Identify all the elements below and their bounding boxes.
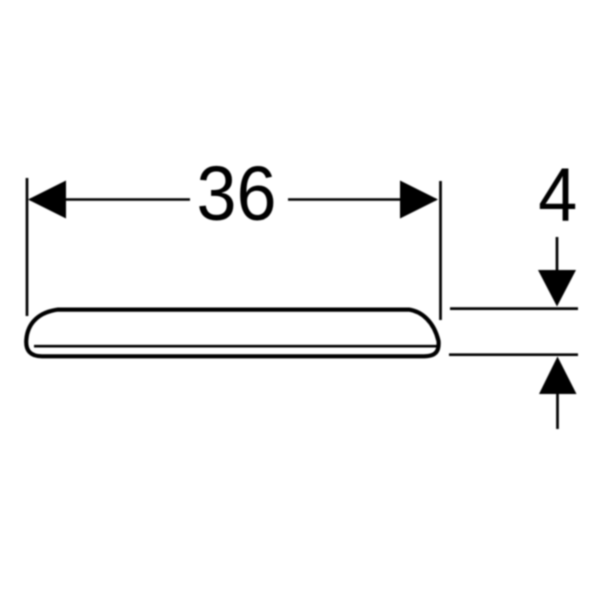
svg-text:36: 36 (197, 151, 277, 237)
svg-text:4: 4 (538, 153, 577, 238)
dimension 36: right extension line (439, 181, 442, 320)
dimension 4: upper extension line (450, 307, 578, 310)
dimension 36: right line segment (288, 198, 436, 200)
dimension 36: right arrowhead (400, 181, 438, 219)
dimension 36: left extension line (26, 178, 29, 316)
dimension 4: lower extension line (449, 353, 578, 356)
dimension 4: down arrowhead (538, 270, 576, 307)
dimension 4: up arrowhead (539, 357, 577, 395)
dimension 4: down arrow stem (556, 237, 559, 274)
part outline (cover plate, side view) (26, 310, 438, 357)
part inner edge line (34, 345, 437, 348)
dimension 36: left line segment (30, 198, 190, 200)
dimension 4: up arrow stem (556, 392, 559, 429)
dimension 36: left arrowhead (28, 181, 66, 219)
